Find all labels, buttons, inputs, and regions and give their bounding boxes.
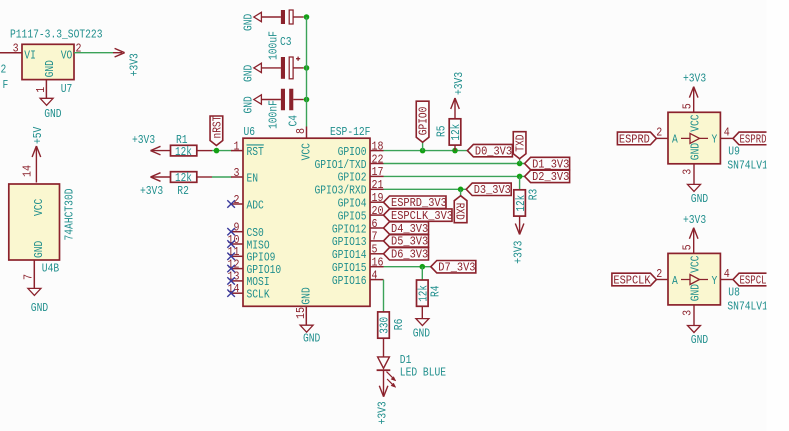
wire GPIO3 RXD net — [384, 188, 467, 190]
U8 pin 2 — [656, 267, 662, 281]
resistor R4 12k — [417, 280, 443, 306]
label D7_3V3 — [431, 261, 476, 275]
ESP pin 15 GND stub — [294, 306, 308, 325]
svg-text:R4: R4 — [428, 285, 442, 297]
junction D7 — [420, 264, 426, 270]
wire GPIO15 net — [384, 266, 431, 268]
label ESPRD output clipped — [733, 132, 775, 146]
svg-text:U6: U6 — [244, 125, 256, 139]
wire D2 to R3 — [519, 176, 521, 189]
wire RXD drop — [460, 189, 462, 195]
ESP right pin stubs and numbers — [370, 139, 384, 282]
resistor R6 330 — [378, 312, 407, 338]
svg-text:ESPRD: ESPRD — [619, 132, 650, 146]
svg-text:4: 4 — [724, 126, 730, 140]
label D2_3V3 — [525, 170, 570, 184]
capacitor top 100uF — [262, 10, 304, 24]
U8 pin 3 — [681, 310, 695, 316]
svg-text:+3V3: +3V3 — [376, 401, 390, 424]
svg-text:GPIO2: GPIO2 — [338, 171, 367, 185]
svg-text:C3: C3 — [280, 35, 292, 49]
label nRST — [210, 116, 224, 146]
label D3_3V3 — [466, 183, 511, 197]
label ESPRD — [617, 132, 656, 146]
ground below U8 — [688, 326, 709, 347]
wire U8 ground pin — [693, 305, 695, 326]
svg-text:GND: GND — [242, 65, 256, 82]
svg-text:ESP-12F: ESP-12F — [330, 125, 370, 139]
gate U4B 74AHCT30D — [9, 184, 77, 276]
U9 pin 3 — [681, 169, 695, 175]
svg-text:RXD: RXD — [453, 203, 467, 220]
wire U9 input — [657, 137, 669, 139]
svg-text:20: 20 — [372, 204, 384, 218]
svg-text:GND: GND — [413, 327, 430, 341]
svg-text:LED BLUE: LED BLUE — [400, 365, 446, 379]
svg-text:Y: Y — [712, 133, 718, 147]
ground below R4 — [413, 319, 430, 341]
svg-text:GND: GND — [303, 332, 320, 346]
clipped text 2 — [1, 63, 7, 77]
svg-text:5: 5 — [372, 243, 378, 257]
svg-text:VCC: VCC — [689, 256, 703, 273]
U9 pin 2 — [656, 126, 662, 140]
ground below U9 — [688, 184, 709, 205]
svg-text:7: 7 — [372, 230, 378, 244]
resistor R3 12k — [514, 189, 541, 216]
capacitor C3 100uF — [262, 31, 304, 79]
label ESPCLK — [612, 273, 657, 287]
wire TXD drop — [519, 159, 521, 164]
U9 pin 4 — [724, 126, 730, 140]
U7 pin 3 — [13, 42, 19, 56]
svg-text:R3: R3 — [526, 189, 540, 201]
svg-text:3: 3 — [681, 169, 695, 175]
svg-text:C4: C4 — [286, 115, 300, 127]
svg-text:D1_3V3: D1_3V3 — [532, 157, 569, 171]
svg-text:SCLK: SCLK — [247, 288, 271, 302]
svg-text:330: 330 — [378, 317, 392, 334]
resistor R1 12k — [171, 133, 197, 159]
wire VCC rail — [306, 17, 308, 127]
svg-text:D0_3V3: D0_3V3 — [475, 144, 512, 158]
wire R6 to LED — [383, 338, 385, 357]
svg-text:4: 4 — [372, 268, 378, 282]
ESP pin 8 stub — [294, 127, 308, 139]
svg-text:U9: U9 — [728, 145, 740, 159]
svg-text:R2: R2 — [177, 184, 189, 198]
wire GPIO0 tag drop — [422, 142, 424, 150]
U8 pin 4 — [724, 267, 730, 281]
label ESPCLK_3V3 — [384, 209, 454, 223]
svg-text:15: 15 — [294, 307, 308, 319]
svg-text:+3V3: +3V3 — [683, 213, 706, 227]
svg-text:GND: GND — [43, 60, 57, 77]
junction D3 — [458, 187, 464, 193]
svg-text:19: 19 — [372, 191, 384, 205]
wire GPIO0 net — [384, 150, 468, 152]
svg-text:D6_3V3: D6_3V3 — [391, 248, 428, 262]
U4B pin 14 — [21, 165, 35, 177]
junction nRST node — [214, 148, 220, 154]
LED D1 — [377, 353, 446, 388]
svg-text:GND: GND — [300, 287, 314, 304]
svg-text:D2_3V3: D2_3V3 — [532, 170, 569, 184]
svg-text:21: 21 — [372, 178, 384, 192]
svg-text:ESPCLK_3V3: ESPCLK_3V3 — [391, 209, 453, 223]
svg-text:+3V3: +3V3 — [683, 72, 706, 86]
svg-text:GND: GND — [31, 301, 48, 315]
svg-text:D4_3V3: D4_3V3 — [391, 222, 428, 236]
wire GPIO1 TXD net — [384, 163, 525, 165]
svg-text:ESPCLK: ESPCLK — [613, 273, 651, 287]
svg-text:P1117-3.3_SOT223: P1117-3.3_SOT223 — [10, 28, 102, 42]
svg-text:VI: VI — [24, 49, 36, 63]
svg-text:22: 22 — [372, 152, 384, 166]
buffer U9 SN74LV1T34 — [668, 112, 785, 172]
svg-text:VCC: VCC — [32, 199, 46, 216]
power +3V3 above U9 — [683, 72, 706, 113]
junction VCC rail bottom — [304, 97, 310, 103]
label ESPCLK output clipped — [733, 273, 775, 287]
svg-text:GPIO12: GPIO12 — [332, 222, 367, 236]
svg-text:17: 17 — [372, 165, 384, 179]
wire GPIO2 net — [384, 175, 525, 177]
power +3V3 below R3 — [511, 216, 525, 264]
svg-text:6: 6 — [372, 217, 378, 231]
wire U8 output — [720, 279, 733, 281]
svg-text:100nF: 100nF — [267, 100, 281, 129]
svg-text:GND: GND — [689, 284, 703, 301]
wire U9 ground pin — [693, 164, 695, 185]
svg-text:5: 5 — [681, 103, 695, 109]
wire R5 to junction — [454, 145, 456, 151]
wire R1 to RST — [197, 150, 232, 152]
svg-text:U4B: U4B — [42, 262, 59, 276]
label ESPRD_3V3 — [384, 196, 447, 210]
label GPIO0 — [416, 101, 430, 142]
svg-text:GND: GND — [689, 143, 703, 160]
power +3V3 at U7 output — [113, 48, 142, 76]
svg-text:GPIO4: GPIO4 — [338, 197, 367, 211]
svg-text:GND: GND — [32, 241, 46, 258]
resistor R5 12k — [435, 119, 464, 145]
wire U7 GND pin — [45, 80, 47, 99]
U7 pin 1 — [34, 87, 48, 93]
svg-text:GPIO13: GPIO13 — [332, 235, 367, 249]
svg-text:GND: GND — [691, 333, 708, 347]
svg-text:3: 3 — [234, 166, 240, 180]
wire R4 to ground — [421, 306, 423, 318]
svg-text:TXD: TXD — [514, 135, 528, 152]
svg-text:100uF: 100uF — [267, 31, 281, 60]
label D4_3V3 — [384, 222, 429, 236]
wire U8 input — [657, 279, 669, 281]
svg-text:12k: 12k — [175, 171, 192, 185]
svg-text:EN: EN — [247, 171, 259, 185]
clipped text F — [3, 78, 9, 92]
capacitor C4 100nF — [262, 89, 304, 129]
svg-text:GND: GND — [44, 107, 61, 121]
label D6_3V3 — [384, 248, 429, 262]
svg-text:18: 18 — [372, 139, 384, 153]
svg-text:5: 5 — [681, 244, 695, 250]
svg-text:7: 7 — [22, 274, 36, 280]
svg-text:Y: Y — [712, 274, 718, 288]
wire R2 to EN — [197, 176, 232, 178]
svg-text:GPIO1/TXD: GPIO1/TXD — [314, 158, 366, 172]
power +3V3 above R5 — [451, 72, 466, 119]
power +3V3 above U8 — [683, 213, 706, 254]
U8 pin 5 — [681, 244, 695, 250]
svg-text:GPIO0: GPIO0 — [417, 107, 431, 136]
regulator U7 P1117-3.3_SOT223 — [10, 28, 102, 96]
svg-text:GND: GND — [242, 96, 256, 113]
svg-text:+5V: +5V — [31, 126, 45, 144]
svg-text:ESPRD_3V3: ESPRD_3V3 — [391, 196, 447, 210]
ESP left pin stubs and numbers — [228, 139, 244, 296]
U9 pin 5 — [681, 103, 695, 109]
svg-text:GND: GND — [242, 14, 256, 31]
label D0_3V3 — [467, 144, 512, 158]
wire U9 output — [720, 137, 733, 139]
buffer U8 SN74LV1T34 — [668, 253, 785, 313]
svg-text:VCC: VCC — [689, 114, 703, 131]
ground at top capacitor — [242, 12, 262, 31]
U4B pin 7 — [22, 274, 36, 280]
svg-text:GPIO14: GPIO14 — [332, 248, 367, 262]
svg-text:+3V3: +3V3 — [452, 72, 466, 95]
svg-text:12k: 12k — [175, 145, 192, 159]
wire U4B GND pin — [33, 260, 35, 288]
junction VCC rail mid — [304, 65, 310, 71]
svg-text:U7: U7 — [61, 82, 73, 96]
ground below U7 — [40, 98, 61, 121]
label TXD — [513, 132, 527, 159]
svg-text:GPIO3/RXD: GPIO3/RXD — [314, 184, 366, 198]
svg-text:A: A — [672, 133, 678, 147]
svg-text:D3_3V3: D3_3V3 — [474, 183, 511, 197]
label D5_3V3 — [384, 235, 429, 249]
svg-text:+3V3: +3V3 — [128, 53, 142, 76]
svg-text:3: 3 — [681, 310, 695, 316]
svg-text:nRST: nRST — [210, 116, 224, 139]
svg-text:12k: 12k — [449, 124, 463, 141]
svg-text:U8: U8 — [728, 286, 740, 300]
junction GPIO0 R5 — [452, 148, 458, 154]
svg-text:8: 8 — [294, 128, 308, 134]
junction D2 — [517, 174, 523, 180]
U7 pin 2 — [76, 42, 82, 56]
svg-text:VO: VO — [61, 49, 73, 63]
wire U7 VO to +3V3 — [74, 52, 113, 54]
svg-text:+3V3: +3V3 — [140, 184, 163, 198]
junction VCC rail top — [304, 14, 310, 20]
resistor R2 12k — [171, 171, 197, 198]
label RXD — [453, 196, 467, 223]
junction GPIO0 tag — [420, 148, 426, 154]
svg-text:GPIO16: GPIO16 — [332, 274, 367, 288]
ground below ESP — [300, 325, 320, 345]
svg-text:F: F — [3, 78, 9, 92]
svg-text:A: A — [672, 274, 678, 288]
svg-text:3: 3 — [13, 42, 19, 56]
white margin band right edge — [767, 0, 789, 431]
wire junction to R4 — [421, 267, 423, 280]
svg-text:ADC: ADC — [247, 198, 264, 212]
svg-text:D5_3V3: D5_3V3 — [391, 235, 428, 249]
power +3V3 at R2 — [140, 173, 171, 198]
label D1_3V3 — [525, 157, 570, 171]
svg-text:GPIO15: GPIO15 — [332, 261, 367, 275]
ground below U4B — [28, 288, 48, 315]
ground at C4 — [242, 95, 262, 114]
svg-text:2: 2 — [1, 63, 7, 77]
svg-text:1: 1 — [234, 139, 240, 153]
junction D1 — [517, 161, 523, 167]
svg-text:+3V3: +3V3 — [132, 133, 155, 147]
svg-text:D7_3V3: D7_3V3 — [438, 261, 475, 275]
svg-text:16: 16 — [372, 256, 384, 270]
svg-text:74AHCT30D: 74AHCT30D — [62, 188, 76, 240]
wire to U7 pin 3 VI — [0, 52, 22, 54]
svg-text:14: 14 — [21, 165, 35, 177]
ground at C3 — [242, 63, 262, 82]
op-amp U6 ESP-12F module — [243, 125, 370, 306]
no-connect marks on unused pins — [227, 200, 235, 297]
svg-text:4: 4 — [724, 267, 730, 281]
svg-text:ESPRD: ESPRD — [740, 132, 767, 146]
power +5V — [31, 126, 45, 182]
svg-text:GPIO0: GPIO0 — [338, 145, 367, 159]
power +3V3 at R1 — [132, 133, 171, 155]
svg-text:RST: RST — [247, 145, 264, 159]
svg-text:GND: GND — [691, 192, 708, 206]
svg-text:R6: R6 — [392, 319, 406, 331]
svg-text:VCC: VCC — [300, 143, 314, 160]
svg-text:+3V3: +3V3 — [511, 241, 525, 264]
svg-text:2: 2 — [234, 193, 240, 207]
wire GPIO16 to R6 — [383, 280, 385, 312]
svg-text:2: 2 — [656, 126, 662, 140]
svg-text:R5: R5 — [435, 125, 449, 137]
svg-text:2: 2 — [656, 267, 662, 281]
power +3V3 below LED — [376, 370, 390, 424]
svg-text:GPIO5: GPIO5 — [338, 209, 367, 223]
